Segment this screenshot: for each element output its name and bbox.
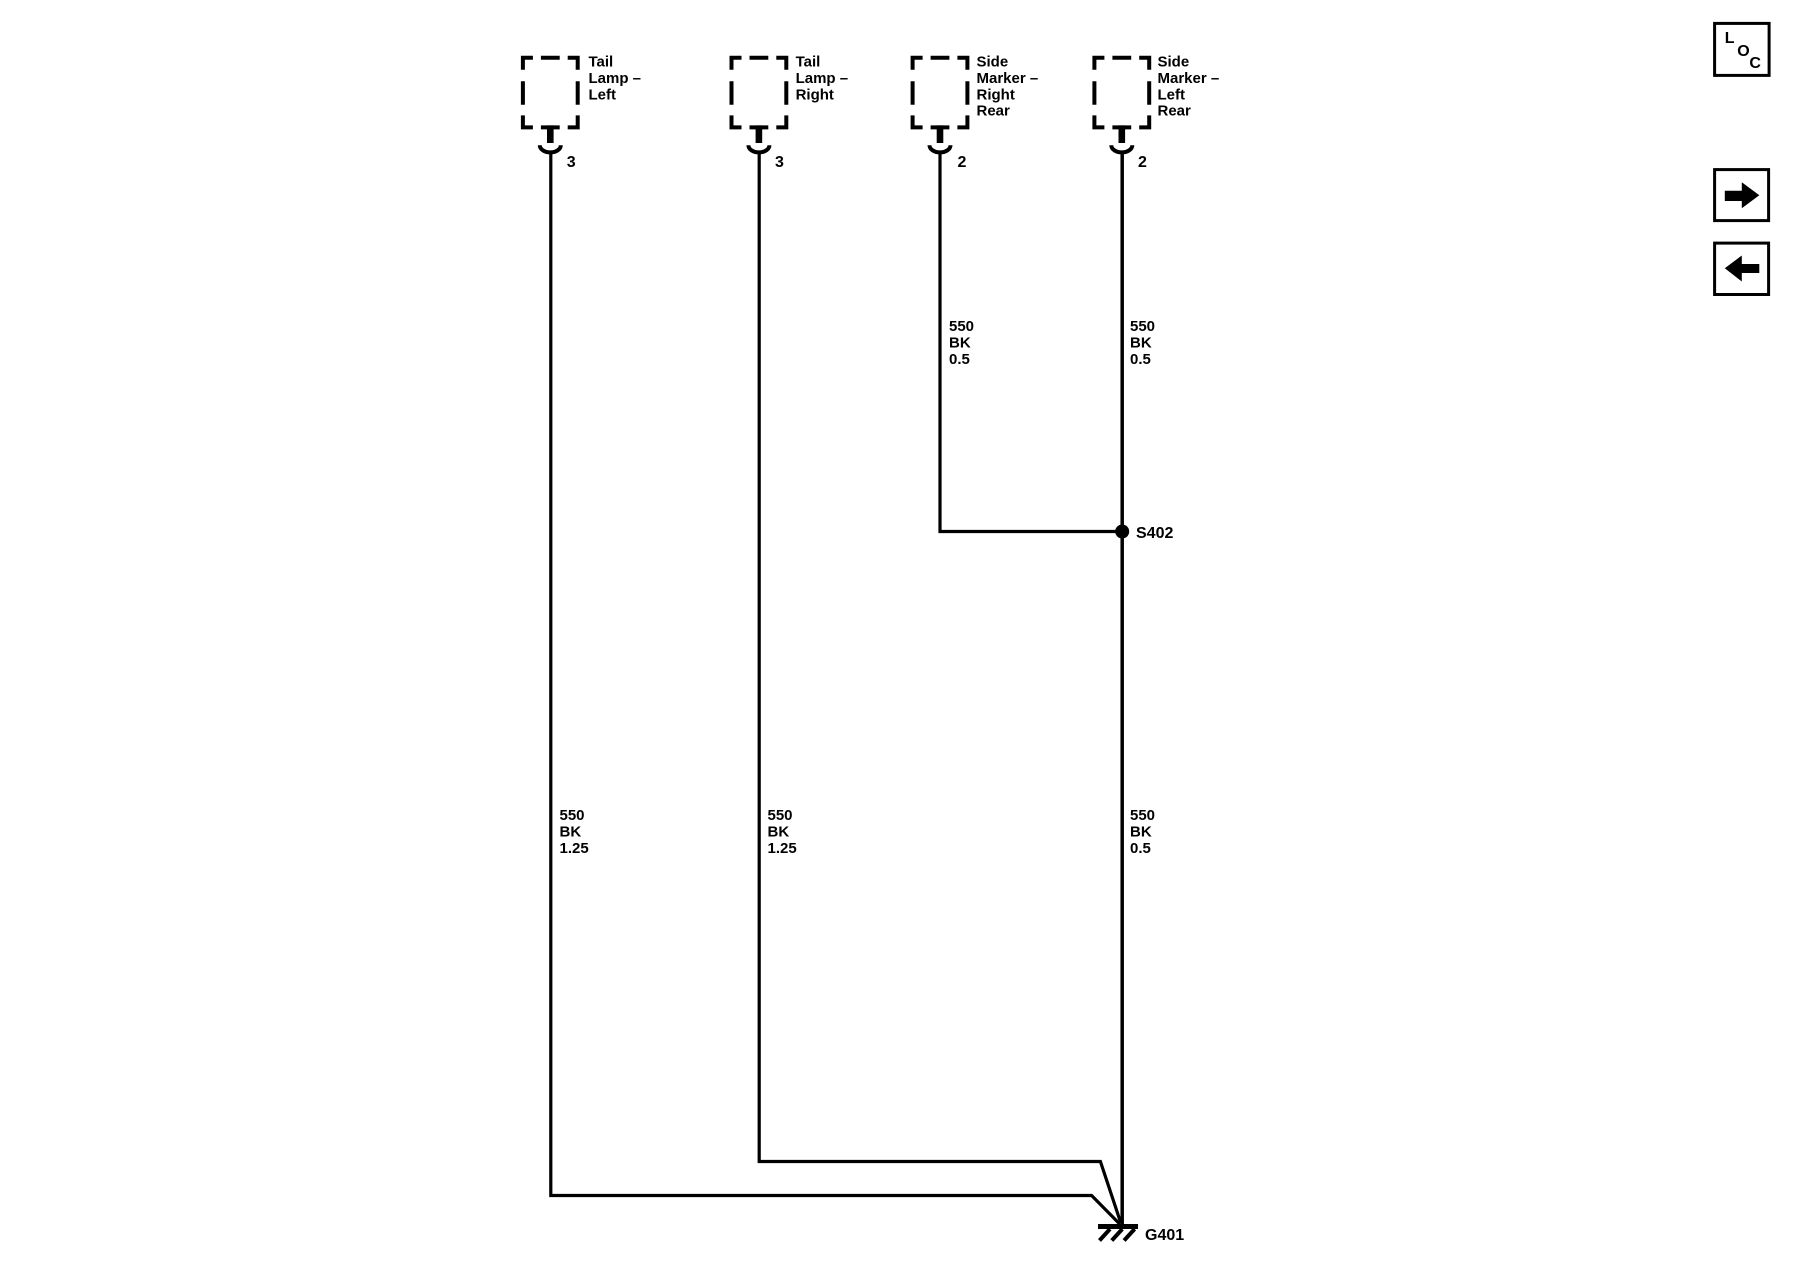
svg-text:O: O	[1737, 43, 1749, 60]
backward arrow navigation box	[1715, 243, 1769, 294]
svg-text:0.5: 0.5	[1130, 840, 1151, 857]
svg-text:550: 550	[560, 807, 585, 824]
svg-text:L: L	[1725, 30, 1735, 47]
pin terminal symbol (Side Marker - Left Rear)	[1111, 125, 1132, 152]
pin terminal symbol (Tail Lamp - Right)	[748, 125, 769, 152]
svg-text:BK: BK	[1130, 824, 1152, 841]
LOC reference box	[1715, 23, 1770, 75]
svg-text:BK: BK	[560, 824, 582, 841]
forward arrow navigation box	[1715, 170, 1769, 221]
connector box Tail Lamp - Left	[521, 56, 580, 130]
svg-text:0.5: 0.5	[949, 351, 970, 368]
svg-text:Tail: Tail	[796, 54, 821, 71]
svg-text:Rear: Rear	[977, 103, 1011, 120]
svg-text:3: 3	[775, 154, 784, 171]
svg-text:Lamp –: Lamp –	[589, 70, 642, 87]
svg-text:550: 550	[949, 318, 974, 335]
svg-text:Marker –: Marker –	[977, 70, 1039, 87]
connector box Side Marker - Left Rear	[1092, 56, 1151, 130]
svg-text:BK: BK	[949, 335, 971, 352]
svg-text:Tail: Tail	[589, 54, 614, 71]
svg-text:0.5: 0.5	[1130, 351, 1151, 368]
svg-text:2: 2	[1138, 154, 1147, 171]
svg-text:BK: BK	[768, 824, 790, 841]
svg-text:Side: Side	[1158, 54, 1190, 71]
wire W3: Side Marker Right Rear pin 2 to splice S402	[940, 152, 1122, 532]
svg-text:S402: S402	[1136, 525, 1173, 542]
wire W1: Tail Lamp Left pin 3 to G401	[551, 152, 1120, 1224]
connector box Tail Lamp - Right	[730, 56, 789, 130]
svg-text:Rear: Rear	[1158, 103, 1192, 120]
wire W2: Tail Lamp Right pin 3 to G401	[759, 152, 1121, 1224]
pin terminal symbol (Side Marker - Right Rear)	[930, 125, 951, 152]
svg-text:Right: Right	[977, 86, 1015, 103]
svg-text:BK: BK	[1130, 335, 1152, 352]
svg-text:1.25: 1.25	[768, 840, 797, 857]
svg-text:3: 3	[567, 154, 576, 171]
svg-text:Left: Left	[589, 86, 617, 103]
svg-text:1.25: 1.25	[560, 840, 589, 857]
svg-text:Right: Right	[796, 86, 834, 103]
svg-text:C: C	[1749, 55, 1761, 72]
svg-text:550: 550	[768, 807, 793, 824]
pin terminal symbol (Tail Lamp - Left)	[540, 125, 561, 152]
svg-text:Lamp –: Lamp –	[796, 70, 849, 87]
svg-text:G401: G401	[1145, 1227, 1184, 1244]
wire W4: Side Marker Left Rear pin 2 to G401 through S402	[1120, 152, 1124, 1227]
svg-text:Left: Left	[1158, 86, 1186, 103]
svg-text:Marker –: Marker –	[1158, 70, 1220, 87]
svg-text:2: 2	[958, 154, 967, 171]
svg-text:550: 550	[1130, 807, 1155, 824]
splice S402 junction dot	[1115, 525, 1129, 539]
connector box Side Marker - Right Rear	[911, 56, 970, 130]
ground G401 symbol	[1098, 1227, 1138, 1241]
svg-text:Side: Side	[977, 54, 1009, 71]
svg-text:550: 550	[1130, 318, 1155, 335]
